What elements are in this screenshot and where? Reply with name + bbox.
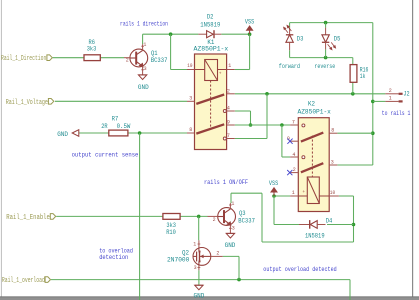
svg-text:rails 1 ON/OFF: rails 1 ON/OFF	[204, 179, 248, 186]
K2 switch arm 2	[301, 163, 323, 172]
K1 pin 4	[227, 110, 235, 112]
svg-text:1k: 1k	[360, 73, 366, 80]
svg-text:0.5W: 0.5W	[117, 123, 131, 130]
wire Q3 collector right	[231, 192, 262, 194]
Q1 base pin	[124, 57, 130, 59]
K2 coil dashed link	[311, 136, 313, 178]
K2 switch arm 1	[301, 133, 323, 142]
svg-text:D3: D3	[297, 36, 304, 43]
wire to K1 pin 10	[171, 69, 187, 71]
K1 pin 2	[227, 93, 235, 95]
junction K2 pin 8	[371, 131, 375, 135]
wire Rail_1_Voltage to K1 pin 3	[55, 100, 187, 102]
power VSS top	[246, 26, 252, 31]
svg-text:D4: D4	[326, 217, 333, 224]
relay K2 AZ850P1-x body	[298, 118, 329, 212]
wire VSS down to K1 pin 1	[249, 34, 251, 69]
wire to D4 anode	[274, 224, 299, 226]
wire R6 to Q1 base	[100, 57, 124, 59]
svg-text:rails 1 direction: rails 1 direction	[120, 20, 168, 27]
svg-text:1: 1	[193, 242, 196, 248]
power VSS at K2	[271, 188, 277, 193]
wire pin2 bus down to K1 pin 7	[266, 94, 268, 139]
svg-text:VSS: VSS	[245, 18, 255, 25]
wire down to K1 pin 10	[170, 34, 172, 69]
wire current sense down off-sheet	[139, 133, 141, 300]
svg-text:R7: R7	[112, 115, 119, 122]
svg-text:to rails 1: to rails 1	[382, 110, 411, 117]
K2 pin 1	[290, 195, 298, 197]
K1 pin 8	[187, 132, 195, 134]
K1 coil	[205, 60, 218, 81]
junction VSS K2	[272, 194, 276, 198]
junction Q3 base / Q2 gate	[197, 215, 201, 219]
ground at Q1 emitter	[138, 74, 146, 76]
svg-text:AZ850P1-x: AZ850P1-x	[298, 108, 332, 115]
svg-text:BC337: BC337	[238, 217, 255, 224]
resistor R10	[163, 214, 180, 220]
svg-text:Q3: Q3	[239, 210, 246, 217]
junction K1 pin4/pin9	[249, 123, 253, 127]
K1 pin 7	[227, 138, 235, 140]
svg-text:GND: GND	[138, 84, 149, 91]
svg-text:forward: forward	[279, 63, 300, 70]
svg-text:Rail_1_overload: Rail_1_overload	[2, 277, 45, 285]
resistor R16	[350, 65, 357, 83]
wire D5 top stub	[325, 23, 327, 28]
wire D4 cathode to coil loop	[327, 224, 354, 226]
svg-text:1: 1	[228, 63, 231, 69]
junction current sense	[138, 131, 142, 135]
K1 pin 9	[227, 124, 235, 126]
svg-text:1: 1	[292, 190, 295, 196]
svg-text:1: 1	[231, 201, 234, 207]
svg-text:1: 1	[389, 96, 392, 102]
wire right bus down	[372, 23, 374, 165]
svg-text:4: 4	[292, 152, 295, 158]
svg-text:2R: 2R	[101, 123, 108, 130]
wire Rail_1_overload row	[51, 279, 350, 281]
svg-text:9: 9	[227, 120, 230, 126]
svg-text:3: 3	[194, 265, 197, 271]
junction Q2 drain on overload row	[237, 278, 241, 282]
wire K1 pin 9 to K2 pin 7	[235, 124, 290, 126]
svg-text:Rail_1_Enable: Rail_1_Enable	[6, 214, 50, 222]
Q2 top pin (to Q3 base node)	[198, 240, 200, 247]
svg-text:+: +	[302, 190, 305, 195]
svg-text:1N5819: 1N5819	[200, 22, 220, 29]
wire K2 pin 8	[337, 132, 372, 134]
svg-text:10: 10	[330, 190, 335, 196]
window bottom bar	[0, 297, 419, 300]
hierarchical label Rail_1_Enable	[50, 214, 55, 220]
Q2 bottom pin (source)	[198, 265, 200, 270]
wire K1 pin 4	[235, 110, 251, 112]
wire VSS down to D4	[273, 196, 275, 225]
power GND arrow at R7	[72, 130, 79, 137]
wire up to K2 pin 10	[353, 196, 355, 242]
K2 pin 10	[329, 195, 339, 197]
wire K1 pin 4 down	[250, 111, 252, 125]
transistor Q1 BC337	[130, 49, 148, 67]
wire Q2 pin 2 down	[238, 256, 240, 279]
junction at Q1 collector / K1 coil feed	[169, 32, 173, 36]
wire down right of Q3	[261, 193, 263, 242]
resistor R7	[109, 130, 128, 136]
wire GND to R7	[79, 132, 109, 134]
svg-text:2: 2	[227, 88, 230, 94]
Q3 emitter pin	[229, 225, 231, 234]
transistor Q2 2N7000	[193, 248, 211, 266]
wire Q1 collector up	[142, 34, 144, 44]
wire to K1 pin 1	[235, 69, 250, 71]
junction J2 pin 1	[371, 100, 375, 104]
junction VSS top	[248, 32, 252, 36]
svg-text:3: 3	[331, 159, 334, 165]
LED D3 forward	[289, 28, 291, 35]
svg-text:3: 3	[189, 96, 192, 102]
K1 contact circle pin 4	[223, 110, 226, 113]
svg-text:2: 2	[126, 57, 129, 63]
svg-text:K2: K2	[308, 100, 315, 107]
sheet border right	[412, 0, 414, 297]
wire Q3 collector up	[230, 193, 232, 203]
Q3 base pin	[208, 215, 218, 217]
svg-text:R10: R10	[166, 229, 176, 236]
wire R16 bottom	[352, 82, 354, 94]
svg-text:GND: GND	[225, 242, 236, 249]
K1 pin 10	[187, 69, 195, 71]
wire K2 pin 3	[337, 164, 372, 166]
diode D4 1N5819	[299, 224, 310, 226]
wire to J2 pin 1	[373, 100, 386, 102]
svg-text:10: 10	[187, 63, 192, 69]
K1 switch arm 2	[196, 124, 224, 133]
wire Q1 collector to D2 anode	[143, 33, 199, 35]
svg-text:Rail_1_Direction: Rail_1_Direction	[1, 55, 46, 63]
Q3 collector pin	[229, 203, 231, 209]
junction D4 cathode	[352, 223, 356, 227]
wire down to K2 pin 4	[281, 125, 283, 157]
wire bottom of coil loop	[262, 241, 354, 243]
svg-text:output current sense: output current sense	[72, 152, 139, 159]
K2 pin 3	[329, 164, 337, 166]
svg-text:BC337: BC337	[151, 57, 168, 64]
wire Q2 source to GND	[198, 270, 200, 285]
junction K2 pin 7 node	[280, 123, 284, 127]
svg-text:3k3: 3k3	[87, 46, 97, 53]
wire D3 top stub	[289, 23, 291, 28]
svg-text:3: 3	[232, 226, 235, 232]
sheet border left	[0, 0, 2, 297]
wire D3 bottom stub	[289, 50, 291, 57]
wire down to Q2 top pin	[198, 216, 200, 240]
transistor Q3 BC337	[218, 208, 236, 226]
wire K1 pin 2 to J2 pin 2	[235, 93, 386, 95]
K2 pin 8	[329, 132, 337, 134]
wire R16 top	[352, 58, 354, 65]
K1 switch arm 1	[196, 95, 224, 104]
svg-text:output overload detected: output overload detected	[263, 266, 337, 273]
K1 contact circle pin 7	[223, 137, 226, 140]
hierarchical label Rail_1_overload	[45, 277, 50, 283]
Q1 emitter pin	[142, 66, 144, 75]
connector J2 pin 2	[385, 93, 398, 95]
svg-text:reverse: reverse	[314, 63, 335, 70]
LED D5 reverse	[325, 28, 327, 35]
junction D5 bottom	[324, 56, 328, 60]
K2 contact circle pin 7	[302, 124, 305, 127]
wire D2 cathode to VSS	[221, 33, 249, 35]
wire overload row down off-sheet	[349, 280, 351, 300]
svg-text:detection: detection	[99, 254, 128, 261]
K2 pin 7	[290, 124, 298, 126]
svg-text:VSS: VSS	[269, 180, 279, 187]
svg-text:GND: GND	[194, 293, 205, 300]
hierarchical label Rail_1_Voltage	[48, 99, 53, 105]
svg-text:GND: GND	[57, 131, 68, 138]
ground at Q3 emitter	[226, 232, 234, 234]
svg-text:1: 1	[143, 42, 146, 48]
svg-text:D5: D5	[334, 36, 341, 43]
wire Rail_1_Enable to R10	[56, 215, 163, 217]
K2 pin 2 (NC)	[290, 172, 298, 174]
wire K1 pin 7	[235, 138, 267, 140]
no-connect X at K2 pin 2	[287, 170, 292, 175]
K2 contact circle pin 4	[302, 156, 305, 159]
junction D5 top	[324, 21, 328, 25]
wire D5 bottom stub	[325, 49, 327, 57]
K2 pin 4	[290, 156, 298, 158]
relay K1 AZ850P1-x body	[195, 54, 227, 150]
svg-text:3: 3	[144, 66, 147, 72]
svg-text:2: 2	[216, 250, 219, 256]
wire stub K2 pin 4	[282, 156, 290, 158]
junction K1 pin2/pin7 bus	[265, 92, 269, 96]
Q2 right pin 2	[211, 255, 223, 257]
svg-text:8: 8	[331, 128, 334, 134]
resistor R6	[84, 55, 100, 61]
connector J2 pin 1	[385, 100, 398, 102]
wire Rail_1_Direction to R6	[53, 57, 84, 59]
K2 pin 9 (NC)	[290, 140, 298, 142]
hierarchical label Rail_1_Direction	[47, 55, 52, 61]
wire R7 to K1 pin 8	[128, 132, 187, 134]
K2 coil	[307, 177, 319, 204]
svg-text:2: 2	[293, 167, 296, 173]
wire LED bottom rail	[290, 57, 353, 59]
svg-text:2N7000: 2N7000	[167, 256, 190, 263]
svg-text:D2: D2	[207, 14, 214, 21]
svg-text:2: 2	[389, 88, 392, 94]
wire LED top rail	[290, 22, 373, 24]
svg-text:1N5819: 1N5819	[305, 232, 325, 239]
ground at Q2 source	[195, 284, 203, 286]
wire K2 pin 10	[339, 195, 354, 197]
svg-text:8: 8	[189, 127, 192, 133]
K1 pin 1	[227, 69, 235, 71]
svg-text:7: 7	[292, 119, 295, 125]
diode D2 1N5819	[198, 33, 206, 35]
svg-text:+: +	[219, 71, 222, 76]
svg-text:J2: J2	[403, 91, 409, 98]
wire Q2 pin 2 right	[223, 255, 239, 257]
K1 pin 3	[187, 100, 195, 102]
svg-text:2: 2	[213, 217, 216, 223]
svg-text:7: 7	[227, 133, 230, 139]
junction R16 bottom	[351, 92, 355, 96]
no-connect X at K2 pin 9	[287, 139, 292, 144]
wire VSS to K2 pin 1	[274, 195, 290, 197]
wire R10 to Q3 base	[180, 215, 207, 217]
svg-text:AZ850P1-x: AZ850P1-x	[194, 45, 229, 52]
Q1 collector pin	[142, 44, 144, 50]
K1 coil dashed link	[210, 81, 212, 128]
svg-text:Rail_1_Voltage: Rail_1_Voltage	[6, 99, 48, 107]
svg-text:4: 4	[227, 106, 230, 112]
svg-text:3k3: 3k3	[166, 222, 176, 229]
